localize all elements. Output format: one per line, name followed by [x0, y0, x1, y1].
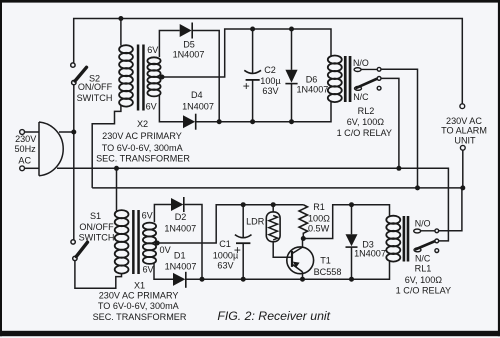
svg-text:230V: 230V: [15, 134, 37, 144]
svg-text:TO ALARM: TO ALARM: [441, 126, 487, 136]
wire: neutral rail from plug to RL1 common corner: [57, 168, 448, 241]
svg-text:D4: D4: [191, 90, 203, 100]
node: X2 primary top on live rail: [118, 16, 123, 21]
switch S2: [71, 63, 75, 67]
svg-text:1N4007: 1N4007: [354, 249, 386, 259]
svg-text:ON/OFF: ON/OFF: [79, 222, 114, 232]
svg-text:D1: D1: [174, 250, 186, 260]
transformer X2 core: [137, 45, 140, 111]
transformer X2 secondary coil: [147, 57, 160, 96]
svg-text:50Hz: 50Hz: [14, 144, 36, 154]
wire: C1 bottom to plus rail: [242, 243, 244, 279]
node: D6 bottom on plus rail: [289, 119, 294, 124]
AC plug 230V 50Hz: [39, 122, 63, 176]
wire: plug top output to live vertical: [59, 131, 74, 133]
wire: collector node to RL1 segment riser: [303, 205, 389, 239]
transistor T1 BC558: [287, 247, 314, 274]
relay RL2 contacts: [354, 68, 361, 72]
svg-text:6V: 6V: [147, 45, 159, 55]
node: C1 bottom on plus rail: [241, 277, 246, 282]
svg-text:R1: R1: [313, 202, 325, 212]
wire: D5 cathode to plus rail: [192, 31, 219, 122]
svg-text:1 C/O RELAY: 1 C/O RELAY: [337, 128, 392, 138]
wire: plus rail bottom section: [186, 261, 390, 279]
wire: 0V center tap X2 to 0V rail: [162, 29, 331, 77]
svg-text:0V: 0V: [160, 245, 172, 255]
svg-text:D6: D6: [306, 75, 318, 85]
LDR: [266, 212, 280, 242]
node: D6 top on 0V rail: [289, 27, 294, 32]
diode D4 1N4007: [183, 115, 195, 128]
svg-text:N/C: N/C: [415, 253, 431, 263]
node: D4/D5 junction on plus rail: [217, 119, 222, 124]
border frame: [0, 0, 500, 3]
svg-text:SWITCH: SWITCH: [79, 233, 115, 243]
svg-text:6V, 100Ω: 6V, 100Ω: [405, 275, 443, 285]
relay RL1 contacts: [414, 229, 421, 233]
transformer X1 core: [132, 210, 135, 274]
svg-text:RL1: RL1: [415, 264, 432, 274]
node: alarm bottom on rail188: [460, 185, 465, 190]
svg-text:1N4007: 1N4007: [296, 85, 328, 95]
node: X1 primary top on neutral rail: [114, 166, 119, 171]
svg-text:6V, 100Ω: 6V, 100Ω: [347, 117, 385, 127]
svg-text:D5: D5: [183, 40, 195, 50]
wire: rail 188 neutral branch: [92, 187, 463, 189]
svg-text:1N4007: 1N4007: [173, 50, 205, 60]
svg-text:N/C: N/C: [353, 92, 369, 102]
svg-text:TO 6V-0-6V, 300mA: TO 6V-0-6V, 300mA: [98, 301, 180, 311]
wire: T1 collector riser: [302, 239, 304, 248]
wire: C2 bottom to plus rail: [252, 80, 254, 122]
relay RL1 coil: [386, 216, 400, 262]
wire: D3 bottom to plus rail: [351, 247, 353, 279]
svg-text:230V AC PRIMARY: 230V AC PRIMARY: [99, 291, 179, 301]
svg-text:6V: 6V: [146, 102, 158, 112]
svg-text:+: +: [243, 79, 250, 93]
node: C1 top on 0V rail: [241, 202, 246, 207]
diode D5 1N4007: [180, 24, 192, 37]
diode D1 1N4007: [173, 273, 185, 286]
svg-text:1000µ: 1000µ: [213, 250, 239, 260]
wire: X1 secondary top riser to D2: [154, 205, 171, 223]
svg-text:C2: C2: [264, 65, 276, 75]
wire: D6 top riser: [291, 29, 293, 70]
wire: RL1 N/O to rail188: [439, 188, 462, 231]
svg-text:230V AC PRIMARY: 230V AC PRIMARY: [102, 131, 182, 141]
wire: RL2 common contact to neutral rail: [381, 78, 399, 168]
svg-text:SWITCH: SWITCH: [77, 93, 113, 103]
svg-text:6V: 6V: [142, 265, 154, 275]
node: LDR top on 0V rail: [271, 202, 276, 207]
svg-text:SEC. TRANSFORMER: SEC. TRANSFORMER: [96, 154, 190, 164]
node: live to plug junction: [71, 130, 76, 135]
wire: live vertical S2-bottom to S1-top: [73, 85, 75, 240]
diode D3 1N4007: [346, 234, 358, 246]
svg-text:C1: C1: [219, 239, 231, 249]
node: collector/R1 junction: [301, 236, 306, 241]
wire: AC top terminal to plug: [24, 131, 39, 133]
svg-text:SEC. TRANSFORMER: SEC. TRANSFORMER: [93, 312, 187, 322]
wire: X2 secondary bottom riser to D4: [159, 96, 183, 122]
wire: LDR bottom to T1 base: [273, 242, 292, 258]
transformer X1 primary coil: [115, 210, 129, 274]
wire: X2 primary top riser: [120, 19, 122, 46]
svg-text:1N4007: 1N4007: [182, 102, 214, 112]
svg-text:X2: X2: [137, 119, 148, 129]
svg-text:100Ω: 100Ω: [308, 214, 330, 224]
wire: top live rail from S2 to alarm corner: [74, 19, 463, 105]
wire: alarm unit bottom terminal to rail188: [462, 150, 464, 188]
svg-text:1N4007: 1N4007: [164, 223, 196, 233]
node: D3 top: [349, 202, 354, 207]
svg-text:63V: 63V: [262, 86, 279, 96]
svg-text:1 C/O RELAY: 1 C/O RELAY: [396, 286, 451, 296]
node: RL2 common on neutral rail: [396, 166, 401, 171]
transformer X2 primary coil: [119, 45, 133, 106]
svg-text:TO 6V-0-6V, 300mA: TO 6V-0-6V, 300mA: [102, 143, 184, 153]
wire: 0V center tap X1 riser to 0V rail: [157, 205, 303, 243]
wire: C2 top riser: [252, 29, 254, 73]
switch S1: [71, 240, 75, 244]
svg-text:FIG. 2: Receiver unit: FIG. 2: Receiver unit: [217, 309, 330, 323]
svg-text:N/O: N/O: [415, 219, 431, 229]
relay RL1 core: [403, 216, 406, 262]
transformer X1 secondary coil: [143, 223, 156, 264]
wire: AC bottom terminal to plug: [24, 167, 39, 169]
node: C2 top on 0V rail: [250, 27, 255, 32]
svg-text:S1: S1: [90, 211, 101, 221]
node: D1/D2 junction on plus rail: [200, 277, 205, 282]
svg-text:6V: 6V: [142, 210, 154, 220]
wire: X1 secondary bottom riser to D1: [154, 263, 173, 279]
diode D6 1N4007: [285, 70, 297, 83]
node: X1 center tap: [155, 241, 160, 246]
wire: X1 primary top riser: [116, 168, 118, 210]
svg-text:AC: AC: [18, 156, 31, 166]
svg-text:UNIT: UNIT: [454, 136, 476, 146]
wire: D2 cathode riser to plus rail: [185, 205, 202, 280]
capacitor C1 1000u 63V: [235, 235, 252, 238]
svg-text:0.5W: 0.5W: [308, 223, 330, 233]
svg-text:N/O: N/O: [353, 58, 369, 68]
wire: X2 primary bottom exit to rail188: [92, 106, 121, 188]
svg-text:LDR: LDR: [246, 216, 265, 226]
svg-text:X1: X1: [134, 281, 145, 291]
wire: X1 primary bottom exit to S1: [75, 261, 122, 289]
resistor R1 100ohm 0.5W: [299, 205, 307, 234]
wire: T1 emitter riser: [302, 272, 304, 279]
svg-text:1N4007: 1N4007: [165, 262, 197, 272]
svg-text:63V: 63V: [217, 260, 234, 270]
svg-text:RL2: RL2: [358, 106, 375, 116]
wire: plus rail top section: [196, 102, 331, 122]
svg-text:BC558: BC558: [314, 267, 342, 277]
relay RL2 core: [344, 56, 347, 102]
svg-text:T1: T1: [320, 256, 331, 266]
wire: C1 top riser: [242, 205, 244, 238]
diode D2 1N4007: [171, 198, 183, 211]
node: D3 bottom on plus rail: [349, 277, 354, 282]
wire: RL2 N/O contact to rail188: [381, 69, 417, 188]
wire: X2 secondary top riser to D5: [159, 31, 179, 58]
wire: R1 bottom to collector node: [302, 233, 304, 239]
svg-text:ON/OFF: ON/OFF: [78, 82, 113, 92]
svg-text:230V AC: 230V AC: [446, 116, 482, 126]
relay RL2 coil: [328, 56, 342, 103]
svg-text:100µ: 100µ: [260, 76, 281, 86]
terminal: 230V AC to alarm unit: [460, 104, 465, 109]
node: X2 center tap: [160, 75, 165, 80]
node: T1 emitter on plus rail: [300, 277, 305, 282]
node: C2 bottom on plus rail: [250, 119, 255, 124]
wire: LDR top riser: [272, 205, 274, 212]
node: RL2 N/O on rail188: [415, 185, 420, 190]
svg-text:D2: D2: [175, 212, 187, 222]
wire: D6 bottom to plus rail: [291, 84, 293, 122]
wire: D3 top riser: [351, 205, 353, 235]
capacitor C2 100u 63V: [244, 70, 261, 73]
